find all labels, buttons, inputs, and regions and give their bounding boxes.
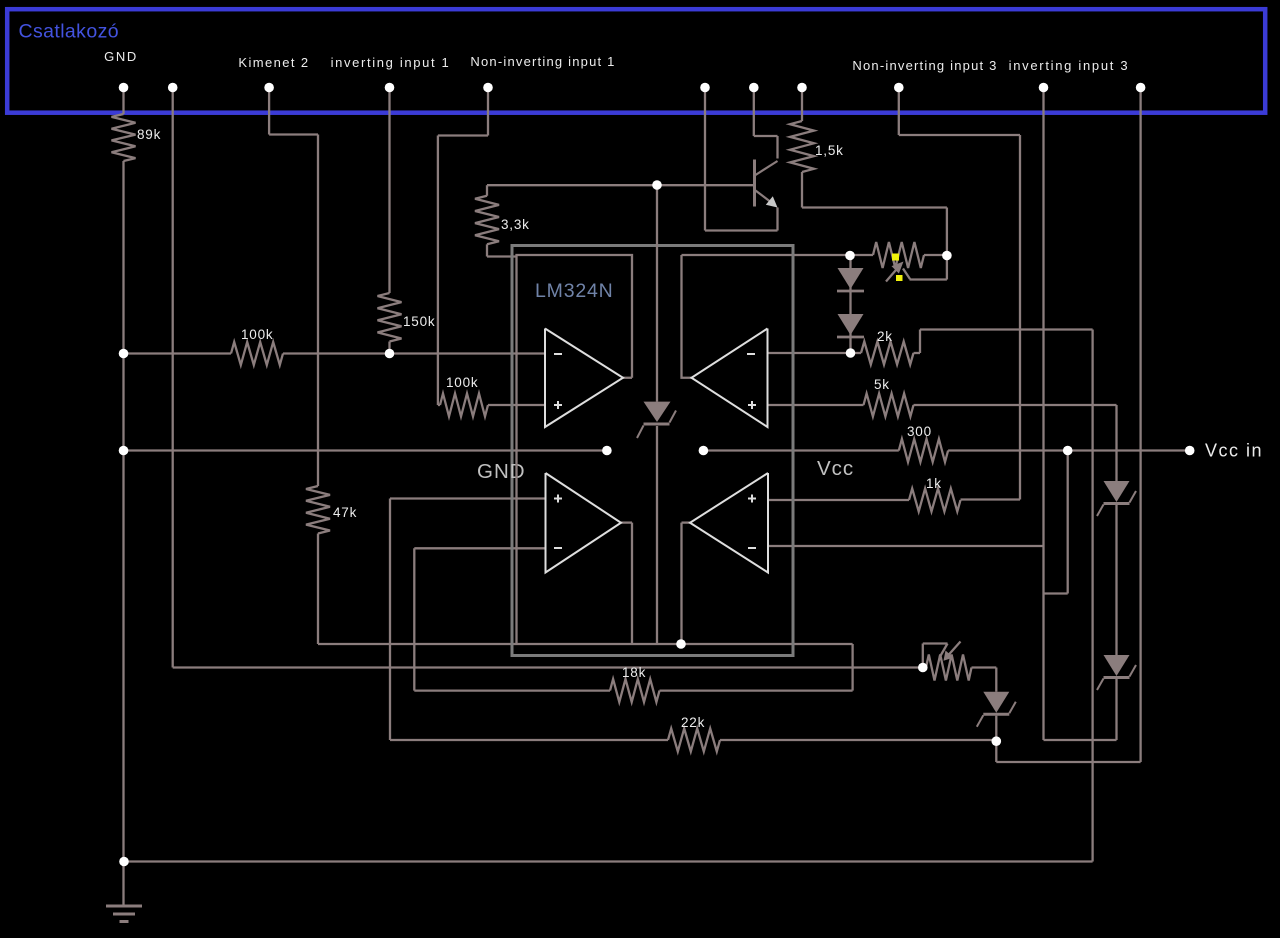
resistor 3,3k <box>486 185 488 196</box>
pin node 8 <box>797 83 807 93</box>
wire vcc branch <box>1067 451 1069 594</box>
wire 1,5k down <box>801 172 803 208</box>
svg-text:1,5k: 1,5k <box>815 143 844 158</box>
pin node 4 <box>385 83 395 93</box>
node L <box>1185 446 1195 456</box>
pin node 1 <box>119 83 129 93</box>
node B <box>119 446 129 456</box>
diode D1 <box>838 268 864 289</box>
IC LM324N box <box>512 246 793 656</box>
diode D2 <box>838 314 864 335</box>
wire vcc stub <box>703 449 898 451</box>
node J <box>699 446 709 456</box>
wire loop right <box>682 255 692 378</box>
wire node to D1 <box>849 255 851 268</box>
node K <box>1063 446 1073 456</box>
wire pin3 jog <box>268 90 270 135</box>
svg-text:1k: 1k <box>926 476 942 491</box>
zener Z2 <box>1104 655 1130 676</box>
pin node 11 <box>1136 83 1146 93</box>
wire op1 out stub <box>623 377 632 379</box>
wire 22k left <box>390 739 668 741</box>
op-amp U1A <box>545 329 623 428</box>
wire gnd stub <box>124 449 607 451</box>
wire D1-D2 <box>849 286 851 315</box>
resistor 5k <box>864 394 914 417</box>
zener Z4 (in IC) <box>644 402 671 422</box>
resistor 1,5k <box>790 121 814 172</box>
pin node 9 <box>894 83 904 93</box>
svg-text:inverting input 1: inverting input 1 <box>331 55 451 70</box>
svg-text:GND: GND <box>104 49 138 64</box>
trimmer P1 wiper <box>886 267 899 282</box>
zener Z1 <box>1104 481 1130 502</box>
svg-text:47k: 47k <box>333 505 357 520</box>
pin node 2 <box>168 83 178 93</box>
svg-text:5k: 5k <box>874 377 890 392</box>
svg-text:18k: 18k <box>622 665 646 680</box>
svg-text:300: 300 <box>907 424 932 439</box>
resistor 89k <box>112 114 136 161</box>
wire pin10 down <box>1042 90 1044 740</box>
wire 47k to rail <box>317 534 319 645</box>
wire loop left <box>517 255 633 644</box>
wire bottom rail <box>124 860 1093 862</box>
wire 5k corner down <box>1115 405 1117 481</box>
wire 18k left <box>414 689 610 691</box>
wire op2 out rail <box>682 254 850 256</box>
svg-text:Non-inverting input 1: Non-inverting input 1 <box>470 54 615 69</box>
zener Z3 <box>983 692 1009 713</box>
svg-text:22k: 22k <box>681 715 705 730</box>
svg-text:inverting input 3: inverting input 3 <box>1009 58 1130 73</box>
svg-text:Vcc: Vcc <box>817 457 854 480</box>
wire output rail <box>318 643 853 645</box>
wire 100k-b leads <box>438 404 440 406</box>
wire to op3 inv <box>413 548 415 690</box>
resistor 2k <box>851 352 862 354</box>
wire z2 down <box>1115 679 1117 740</box>
wire base rail <box>487 184 755 186</box>
handle P1 b <box>896 275 903 281</box>
wire op4 noninv <box>768 499 909 501</box>
pin node 10 <box>1039 83 1049 93</box>
wire pin11 down <box>1139 90 1141 762</box>
wire z1-z2 <box>1115 505 1117 655</box>
wire pin8 stub <box>801 90 803 121</box>
pin node 5 <box>483 83 493 93</box>
wire z3 to node <box>995 716 997 742</box>
svg-text:89k: 89k <box>137 127 161 142</box>
resistor 18k <box>610 679 660 702</box>
svg-text:150k: 150k <box>403 314 435 329</box>
wire D2 to node <box>849 332 851 354</box>
node C <box>119 857 129 867</box>
wire pin1 stub <box>122 90 124 114</box>
resistor 150k <box>378 293 402 342</box>
pin node 3 <box>264 83 274 93</box>
svg-text:Kimenet 2: Kimenet 2 <box>238 55 309 70</box>
transistor Q1 <box>753 160 756 207</box>
wire to op3 noninv <box>390 497 546 499</box>
svg-text:100k: 100k <box>446 375 478 390</box>
op-amp U1C <box>546 473 622 573</box>
node G <box>942 251 952 261</box>
wire 18k right <box>660 689 853 691</box>
svg-text:Vcc in: Vcc in <box>1205 441 1263 461</box>
wire emitter <box>776 208 778 231</box>
resistor 47k <box>306 486 330 534</box>
wire 22k right <box>720 739 996 741</box>
resistor 22k <box>668 729 720 752</box>
wire op4 out stub <box>682 521 691 523</box>
pin node 6 <box>700 83 710 93</box>
node A <box>119 349 129 359</box>
wire 2k gnd drop <box>1091 330 1093 862</box>
svg-text:2k: 2k <box>877 329 893 344</box>
node F <box>845 251 855 261</box>
handle P1 a <box>892 254 899 261</box>
wire pin4 stub <box>388 90 390 293</box>
svg-text:GND: GND <box>477 460 526 483</box>
emitter arrow <box>766 196 778 207</box>
svg-text:LM324N: LM324N <box>535 280 614 302</box>
node M <box>676 639 686 649</box>
wire op3 out stub <box>621 521 632 523</box>
wire zener line top <box>656 185 658 402</box>
wire pin5 jog <box>487 90 489 136</box>
wire 2k up <box>914 352 921 354</box>
trimmer P2 wiper <box>922 644 924 664</box>
resistor 300 <box>899 439 948 462</box>
resistor 100k b <box>440 394 488 417</box>
wire 150k to node <box>388 342 390 354</box>
wire op2 noninv <box>768 404 864 406</box>
trimmer P1 <box>850 254 873 256</box>
resistor 100k a <box>231 342 283 365</box>
connector box (Csatlakozo) <box>7 9 1265 113</box>
resistor 1k <box>909 489 961 512</box>
wire pin2 down <box>172 90 174 668</box>
wire 100k-a right <box>283 352 545 354</box>
node D <box>385 349 395 359</box>
node N <box>992 736 1002 746</box>
wire op2 inv <box>768 352 851 354</box>
svg-text:100k: 100k <box>241 327 273 342</box>
wire vcc right <box>948 449 1190 451</box>
trimmer P2 <box>923 666 926 668</box>
pin node 7 <box>749 83 759 93</box>
svg-text:3,3k: 3,3k <box>501 217 530 232</box>
node E <box>652 180 662 190</box>
op-amp U1B <box>692 329 768 428</box>
wire 5k right <box>914 404 1117 406</box>
svg-text:Non-inverting input 3: Non-inverting input 3 <box>852 58 997 73</box>
wire pin7 collector <box>753 90 755 136</box>
svg-text:Csatlakozó: Csatlakozó <box>19 21 119 43</box>
wire zener line bottom <box>656 426 658 644</box>
wire left rail <box>122 161 124 905</box>
wire 1k to pin9 <box>961 498 1021 500</box>
wire P2 to Z3 <box>995 668 997 692</box>
node O <box>918 663 928 673</box>
ground symbol <box>106 905 142 908</box>
node I <box>602 446 612 456</box>
node H <box>846 348 856 358</box>
op-amp U1D <box>690 473 768 573</box>
wire 100k-a left <box>124 352 232 354</box>
wire op4 inv <box>768 545 1044 547</box>
